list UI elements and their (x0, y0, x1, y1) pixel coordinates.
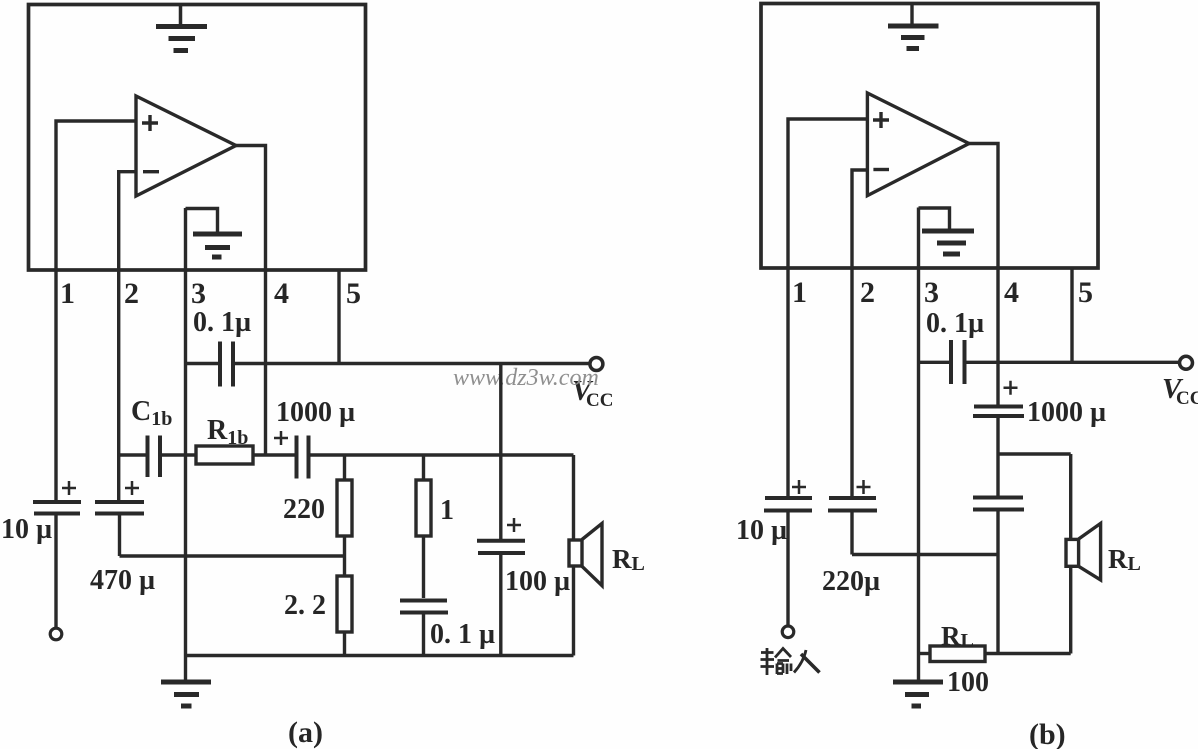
terminal Vcc (a) (590, 358, 603, 371)
wire 1 ohm to 0.1µ cap (a) (422, 536, 425, 598)
wire pin 4 column 1000µ to C2 (b) (996, 418, 999, 496)
wire op-amp output to pin 4 column (a) (236, 146, 266, 456)
wire pin 3 column (b) (917, 208, 920, 654)
svg-text:2: 2 (860, 276, 875, 309)
svg-text:1000 µ: 1000 µ (1027, 397, 1106, 428)
plus mark 470µ (a) (125, 481, 139, 495)
capacitor C2 (b) (973, 498, 1024, 510)
svg-text:5: 5 (346, 277, 361, 310)
svg-text:10 µ: 10 µ (1, 514, 52, 545)
ground at pin 3 inside U1 (a) (186, 209, 243, 258)
speaker RL top wire (b) (1069, 454, 1072, 539)
svg-text:100: 100 (947, 667, 989, 698)
svg-text:220: 220 (283, 494, 325, 525)
terminal input (a) (50, 628, 62, 640)
svg-text:1: 1 (440, 495, 454, 526)
svg-text:C1b: C1b (131, 396, 172, 430)
wire rail to speaker (b) (998, 452, 1071, 455)
svg-text:0. 1µ: 0. 1µ (193, 307, 251, 338)
wire noninverting input to pin 1 column (a) (56, 121, 136, 500)
wire Vcc rail (a) (235, 362, 589, 365)
wire C2 to RL row (b) (996, 511, 999, 654)
ground inside U1 top (a) (156, 5, 207, 51)
capacitor 100µ (a) (477, 541, 525, 656)
capacitor 1000µ (a) (297, 436, 309, 479)
plus mark 220µ (b) (857, 480, 871, 494)
svg-text:R1b: R1b (207, 415, 248, 449)
svg-text:470 µ: 470 µ (90, 565, 155, 596)
wire RL resistor to speaker column (b) (985, 652, 1071, 655)
svg-text:RL: RL (612, 544, 645, 575)
svg-text:10 µ: 10 µ (736, 515, 787, 546)
speaker RL (a) (569, 523, 602, 585)
wire Vcc rail to 100µ (a) (499, 364, 502, 540)
svg-text:1000 µ: 1000 µ (276, 397, 355, 428)
svg-text:3: 3 (191, 277, 206, 310)
wire rail to 1 ohm resistor (a) (422, 455, 425, 480)
resistor RL 100 (b) (930, 646, 985, 662)
capacitor 1000µ (b) (973, 407, 1024, 417)
label 输入 input (b) (761, 648, 820, 675)
op-amp A1 plus input mark (a) (142, 115, 158, 131)
capacitor 10µ (a) (33, 502, 81, 628)
wire feedback row 470µ to 220/2.2 junction (a) (120, 554, 345, 557)
svg-text:1: 1 (792, 276, 807, 309)
ground bottom (a) (161, 656, 211, 707)
terminal Vcc (b) (1180, 356, 1193, 369)
svg-text:0. 1 µ: 0. 1 µ (430, 619, 495, 650)
wire ground rail (a) (186, 654, 574, 657)
wire inverting input to pin 2 column (b) (852, 170, 867, 497)
wire pin 5 to Vcc rail (a) (337, 270, 340, 364)
wire 2.2 to ground rail (a) (343, 632, 346, 656)
resistor 2.2 (a) (337, 576, 352, 632)
ground bottom (b) (893, 654, 943, 707)
speaker RL (b) (1066, 523, 1101, 580)
wire op-amp output to pin 4 column (b) (969, 144, 998, 406)
ground at pin 3 inside U2 (b) (919, 208, 975, 254)
wire noninverting input to pin 1 column (b) (788, 119, 867, 497)
resistor 1 (a) (416, 480, 431, 536)
svg-text:220µ: 220µ (822, 566, 880, 597)
capacitor 0.1µ between pin 3 and rail (b) (919, 340, 965, 384)
svg-text:RL: RL (1108, 544, 1141, 575)
IC U2 body (b) (761, 4, 1098, 269)
svg-text:2. 2: 2. 2 (284, 590, 326, 621)
resistor 220 (a) (337, 480, 352, 536)
svg-text:4: 4 (1004, 276, 1019, 309)
wire 220µ row to pin 4 column (b) (852, 553, 998, 556)
wire pin 2 column to C1b (a) (119, 453, 146, 456)
resistor R1b (a) (196, 446, 253, 464)
op-amp A2 minus input mark (b) (873, 168, 889, 171)
wire inverting input to pin 2 column (a) (119, 172, 136, 500)
capacitor 10µ (b) (764, 498, 812, 626)
svg-text:100 µ: 100 µ (505, 566, 570, 597)
svg-text:1: 1 (60, 277, 75, 310)
svg-text:(a): (a) (288, 716, 323, 749)
wire Vcc rail (b) (966, 361, 1179, 364)
wire pin 3 to RL resistor (b) (919, 652, 931, 655)
terminal input (b) (782, 626, 794, 638)
wire pin 3 column (a) (184, 208, 187, 656)
ground inside U2 top (b) (888, 4, 939, 49)
op-amp A1 minus input mark (a) (143, 170, 159, 173)
svg-text:2: 2 (124, 277, 139, 310)
speaker RL top wire (a) (572, 455, 575, 540)
op-amp A2 plus input mark (b) (873, 112, 889, 128)
plus mark 10µ (b) (792, 480, 806, 494)
op-amp A1 (a) (136, 96, 236, 196)
capacitor 0.1µ between pins 3 and 4 (a) (186, 342, 234, 387)
wire output rail 1000µ to speaker (a) (310, 453, 574, 456)
wire R1b to 1000µ (a) (253, 453, 295, 456)
op-amp A2 (b) (867, 93, 969, 196)
plus mark 100µ (a) (507, 518, 521, 532)
wire pin 5 to Vcc rail (b) (1070, 268, 1073, 362)
svg-text:3: 3 (924, 276, 939, 309)
svg-text:4: 4 (274, 277, 289, 310)
plus mark 1000µ (b) (1004, 381, 1018, 395)
svg-text:RL: RL (941, 621, 974, 652)
wire 220 to 2.2 (a) (343, 536, 346, 576)
capacitor 0.1µ output (a) (400, 601, 448, 656)
IC U1 body (a) (29, 5, 366, 271)
capacitor C1b (a) (148, 436, 197, 478)
svg-text:CC: CC (1176, 388, 1198, 409)
svg-text:www.dz3w.com: www.dz3w.com (453, 365, 599, 391)
wire rail to 220 resistor (a) (343, 455, 346, 480)
svg-text:(b): (b) (1029, 718, 1066, 749)
speaker RL bottom wire (b) (1069, 566, 1072, 653)
capacitor 220µ (b) (828, 498, 877, 555)
svg-text:5: 5 (1078, 276, 1093, 309)
speaker RL bottom wire (a) (572, 566, 575, 655)
svg-text:CC: CC (586, 390, 613, 411)
svg-text:0. 1µ: 0. 1µ (926, 308, 984, 339)
capacitor 470µ (a) (95, 502, 144, 556)
plus mark 1000µ (a) (274, 431, 288, 445)
plus mark 10µ (a) (62, 481, 76, 495)
